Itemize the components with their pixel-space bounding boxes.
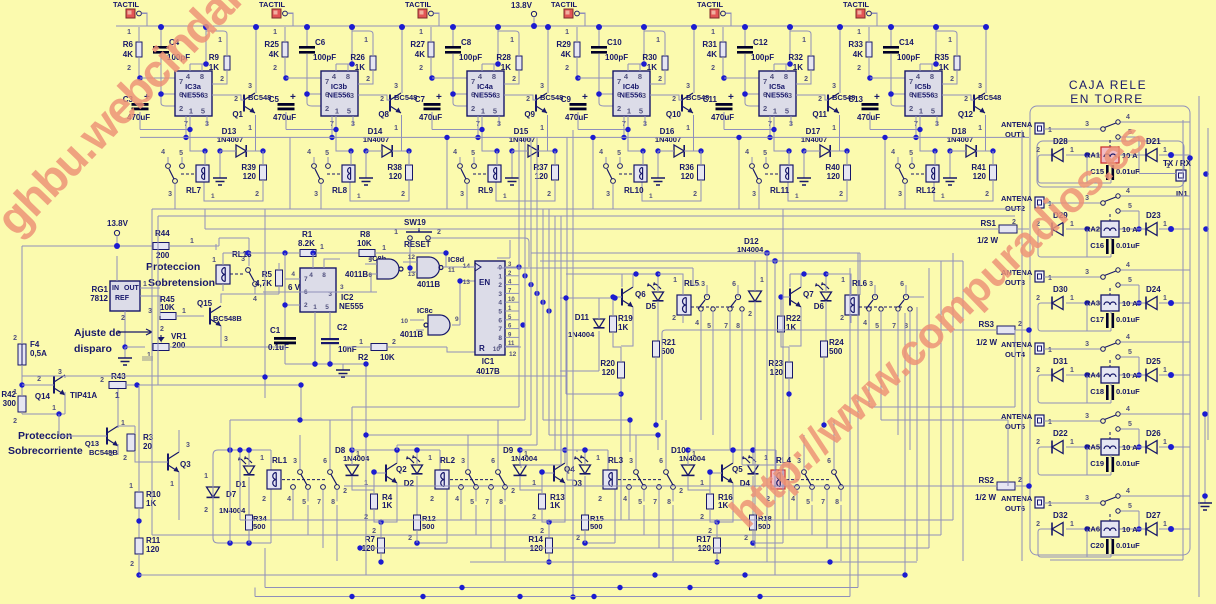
svg-text:2: 2 [1036,367,1040,374]
wire RA3 loop [1038,303,1111,331]
svg-text:NE556: NE556 [328,91,351,100]
junction [546,308,551,313]
svg-text:1: 1 [1070,439,1074,446]
svg-text:C13: C13 [848,95,863,104]
junction [475,135,480,140]
junction [562,447,568,453]
svg-text:8: 8 [346,72,350,81]
power terminal 13.8V regulator [22,219,153,246]
svg-text:1: 1 [170,481,174,488]
junction [767,135,772,140]
relay contact RA3 [1085,262,1190,303]
pushbutton TACTIL ch5 [697,0,731,26]
svg-text:1K: 1K [501,63,511,72]
pin labels R31 [711,29,715,72]
svg-text:RA3: RA3 [1085,299,1100,308]
svg-text:3: 3 [1085,121,1089,128]
svg-text:3: 3 [293,458,297,465]
svg-text:5: 5 [617,150,621,157]
svg-text:4: 4 [1126,406,1130,413]
svg-text:4: 4 [745,149,749,156]
svg-text:1: 1 [204,473,208,480]
svg-text:3: 3 [224,336,228,343]
junction [933,24,939,30]
svg-text:NE556: NE556 [620,91,643,100]
junction [1084,152,1089,157]
relay contact RL3 [618,420,675,507]
svg-text:2: 2 [498,282,502,289]
transistor Q9 BC548 [504,27,563,151]
diode D25 [1146,357,1167,382]
svg-text:470uF: 470uF [565,113,588,122]
relay RL10 [624,151,653,200]
junction [1136,226,1141,231]
junction [509,148,514,153]
junction [19,382,24,387]
svg-text:8: 8 [200,72,204,81]
svg-text:1: 1 [1163,439,1167,446]
junction [640,148,645,153]
pin labels R6 [127,29,131,72]
relay RL3 [596,455,624,503]
junction [610,294,615,299]
wire C18 cap drop [1086,375,1088,403]
svg-text:2: 2 [179,104,183,113]
junction [1136,372,1141,377]
svg-text:1: 1 [498,273,502,280]
svg-text:+: + [874,92,880,103]
timer IC3a NE556 [175,71,212,128]
relay RL8 [332,151,361,200]
svg-text:5: 5 [931,107,935,116]
relay contact RL11 [745,149,780,209]
svg-text:2: 2 [130,561,134,568]
svg-text:5: 5 [498,309,502,316]
svg-text:NE556: NE556 [474,91,497,100]
svg-text:NE556: NE556 [766,91,789,100]
svg-text:D7: D7 [226,490,237,499]
junction [633,271,638,276]
svg-text:6: 6 [617,90,621,99]
junction [947,148,952,153]
svg-text:1: 1 [13,389,17,396]
junction [304,24,310,30]
svg-text:ANTENA: ANTENA [1001,194,1033,203]
svg-text:C12: C12 [753,38,768,47]
svg-text:D28: D28 [1053,137,1068,146]
relay contact RL4 [786,420,843,507]
watermark left [0,0,280,245]
timer IC2 NE555 [278,253,377,337]
svg-text:3: 3 [186,442,190,449]
junction [750,540,756,546]
junction [517,594,522,599]
resistor R34 500 [246,514,268,543]
transistor Q7 [783,274,814,346]
svg-text:6: 6 [763,90,767,99]
wire IC1 bottom pins [140,116,207,151]
junction [329,135,334,140]
junction [420,594,425,599]
svg-text:500: 500 [590,522,603,531]
junction [1202,493,1208,499]
svg-text:Q13: Q13 [85,439,99,448]
wire RA1 row [1066,154,1190,156]
svg-text:TACTIL: TACTIL [697,0,724,9]
svg-text:Q2: Q2 [396,465,407,474]
resistor R24 500 [790,274,844,425]
resistor R15 500 [576,514,604,543]
svg-text:1: 1 [313,304,317,311]
resistor R45 10K [140,295,204,320]
resistor R17 120 [696,522,720,562]
svg-text:5: 5 [763,150,767,157]
pin labels R30 [656,37,662,83]
wire IC1 output 3 [498,288,519,298]
svg-text:TACTIL: TACTIL [259,0,286,9]
resistor R38 120 [350,151,413,201]
wire IC2 bottom pins [286,116,353,151]
svg-text:4: 4 [453,149,457,156]
svg-text:1: 1 [1048,347,1052,354]
junction [882,135,887,140]
svg-text:1: 1 [524,451,528,458]
svg-text:D30: D30 [1053,285,1068,294]
svg-text:2: 2 [123,455,127,462]
svg-text:R35: R35 [934,53,949,62]
resistor R18 500 [744,514,772,543]
resistor R21 500 [622,274,676,425]
svg-text:10: 10 [508,297,515,303]
wire right bus a [1198,96,1200,597]
junction [237,447,242,452]
svg-text:ANTENA: ANTENA [1001,120,1033,129]
svg-text:1: 1 [481,107,485,116]
resistor R2 10K [344,339,475,362]
svg-text:7: 7 [498,326,502,333]
junction [1168,444,1174,450]
text 6 Vol [288,283,307,292]
junction [450,91,456,97]
svg-text:5: 5 [179,150,183,157]
svg-text:5: 5 [347,107,351,116]
junction [612,295,617,300]
junction [495,61,501,67]
junction [778,294,783,299]
resistor R20 120 [600,347,624,520]
wire pin7 ch2 [286,77,321,79]
svg-text:4: 4 [291,271,295,278]
wire top supply bus [116,25,986,27]
svg-text:R14: R14 [528,535,543,544]
relay coil RA4 10A [1085,367,1138,383]
capacitor C6 100pF [299,27,336,106]
svg-text:R8: R8 [360,230,371,239]
svg-text:13: 13 [463,279,471,286]
svg-text:20: 20 [143,442,152,451]
svg-text:4K: 4K [707,50,717,59]
svg-text:1: 1 [419,29,423,36]
counter IC1 4017B [443,261,505,376]
wire RA4 loop [1038,375,1111,403]
svg-text:1N4004: 1N4004 [568,330,595,339]
junction [730,447,736,453]
wire pins48 ch6 [920,27,936,71]
junction [349,61,355,67]
svg-text:5: 5 [1128,349,1132,356]
wire RA6 loop [1038,529,1111,557]
svg-text:BC548B: BC548B [213,314,242,323]
svg-text:4: 4 [307,149,311,156]
svg-text:4: 4 [309,272,313,279]
svg-text:100pF: 100pF [459,53,482,62]
junction [298,382,303,387]
svg-text:500: 500 [829,347,843,356]
junction [528,282,533,287]
svg-text:10 A: 10 A [1122,225,1138,234]
svg-text:6: 6 [471,90,475,99]
svg-text:1K: 1K [355,63,365,72]
text ANTENA OUT2 [1001,194,1033,213]
junction [652,572,657,577]
relay RL1 [260,455,288,503]
svg-text:3: 3 [540,83,544,90]
svg-text:Q1: Q1 [232,110,243,119]
svg-text:12: 12 [408,254,416,261]
svg-text:4: 4 [455,496,459,503]
junction [414,540,420,546]
svg-text:C20: C20 [1090,541,1104,550]
transistor Q10 BC548 [650,27,709,151]
svg-text:1N4007: 1N4007 [217,135,243,144]
svg-text:3: 3 [934,91,938,100]
junction [327,361,332,366]
svg-text:6: 6 [491,458,495,465]
junction [563,295,568,300]
svg-text:1: 1 [1070,295,1074,302]
junction [1187,155,1193,161]
junction [406,148,411,153]
ground ch5 [797,151,811,185]
svg-text:7: 7 [763,77,767,86]
wire out route 9 [567,137,575,480]
junction [378,519,384,525]
junction [1168,526,1174,532]
svg-text:3: 3 [869,281,873,288]
relay coil RA3 10A [1085,295,1138,311]
wire mid bundle verticals [755,209,858,597]
svg-text:1: 1 [832,125,836,132]
junction [357,545,362,550]
junction [227,447,233,453]
fuse F4 0,5A [13,246,47,385]
diode D7 1N4004 [204,473,246,515]
svg-text:7: 7 [317,499,321,506]
svg-text:F4: F4 [30,340,40,349]
svg-text:D23: D23 [1146,211,1161,220]
wire bottom h520 [240,450,953,520]
relay coil RA5 10A [1085,439,1138,455]
resistor R23 120 [768,347,792,520]
svg-text:2: 2 [408,535,412,542]
transistor Q1 BC548 [212,27,271,151]
svg-text:10K: 10K [160,303,175,312]
svg-text:1: 1 [773,107,777,116]
diode D15 1N4007 [509,127,555,157]
wire rl3 contact drops [629,505,673,561]
junction [827,559,832,564]
svg-text:8: 8 [638,72,642,81]
svg-text:5: 5 [368,257,372,264]
pin labels R27 [419,29,423,72]
svg-text:1N4007: 1N4007 [363,135,389,144]
svg-text:2: 2 [950,76,954,83]
svg-text:5: 5 [639,107,643,116]
svg-text:10 A: 10 A [1122,371,1138,380]
diode D9 1N4004 [503,446,542,495]
capacitor C20 0.01uF [1090,537,1140,557]
diode D16 1N4007 [655,127,701,157]
svg-text:R26: R26 [350,53,365,62]
svg-text:4: 4 [623,496,627,503]
svg-text:1K: 1K [618,323,628,332]
svg-text:10 A: 10 A [1122,299,1138,308]
nand gate IC8c 4011B [400,281,475,339]
wire bus y209 [152,209,1022,376]
svg-text:D11: D11 [575,313,590,322]
svg-text:6: 6 [368,272,372,279]
svg-text:Q5: Q5 [732,465,743,474]
svg-text:IN1: IN1 [1176,189,1188,198]
svg-text:4: 4 [1126,334,1130,341]
svg-text:R38: R38 [387,163,402,172]
svg-text:2: 2 [1018,321,1022,328]
svg-text:1: 1 [320,244,324,251]
svg-text:6: 6 [179,90,183,99]
timer IC3b NE556 [321,71,358,128]
capacitor C10 100pF [591,27,628,106]
svg-text:3: 3 [978,83,982,90]
svg-text:R6: R6 [123,40,134,49]
svg-text:1/2 W: 1/2 W [976,338,997,347]
svg-text:4017B: 4017B [476,367,500,376]
svg-text:R11: R11 [146,536,161,545]
junction [1203,226,1209,232]
resistor R26 1K [350,31,376,84]
svg-text:200: 200 [172,341,186,350]
relay contact RL12 [891,149,926,209]
wire rl2 contact drops [461,505,505,561]
resistor R33 4K [848,27,872,78]
diode D27 [1146,511,1167,536]
svg-text:R41: R41 [971,163,986,172]
svg-text:500: 500 [253,522,266,531]
junction [282,302,287,307]
svg-text:1: 1 [127,29,131,36]
junction [495,24,501,30]
junction [1168,226,1174,232]
svg-text:R27: R27 [410,40,425,49]
svg-text:NE556: NE556 [912,91,935,100]
svg-text:1: 1 [428,455,432,462]
svg-text:C8: C8 [461,38,472,47]
svg-text:1: 1 [1070,147,1074,154]
svg-text:7: 7 [304,276,308,283]
diode D11 1N4004 [560,298,605,371]
junction [990,148,995,153]
svg-text:R36: R36 [679,163,694,172]
svg-text:8: 8 [331,499,335,506]
svg-text:2: 2 [576,535,580,542]
svg-text:12: 12 [509,351,517,358]
pin labels R25 [273,29,277,72]
svg-text:3: 3 [629,458,633,465]
junction [933,61,939,67]
junction [516,264,521,269]
svg-text:5: 5 [1128,503,1132,510]
wire IC5 bottom pins [724,116,791,151]
svg-text:Q15: Q15 [197,299,213,308]
svg-text:RL12: RL12 [916,186,936,195]
svg-text:REF: REF [115,295,130,302]
resistor R12 500 [408,514,436,543]
svg-text:Q9: Q9 [524,110,535,119]
svg-text:1: 1 [540,125,544,132]
svg-text:2: 2 [234,96,238,103]
svg-text:4: 4 [253,296,257,303]
svg-text:9: 9 [498,344,502,351]
svg-text:2: 2 [401,191,405,198]
nand gate IC8d 4011B [403,254,475,289]
svg-text:2: 2 [13,418,17,425]
svg-text:RESET: RESET [404,240,431,249]
junction [625,127,630,132]
wire bottom bus y597 [255,588,850,597]
svg-text:C10: C10 [607,38,622,47]
wire RL6 input [904,296,924,298]
junction [333,127,338,132]
text CAJA RELE EN TORRE [1069,78,1147,106]
svg-text:2: 2 [325,104,329,113]
svg-text:D5: D5 [646,302,657,311]
svg-text:D25: D25 [1146,357,1161,366]
junction [1168,372,1174,378]
svg-text:4: 4 [599,149,603,156]
svg-text:1: 1 [1163,295,1167,302]
transistor Q12 BC548 [942,27,1001,151]
diode D22 [1036,429,1074,454]
svg-text:5: 5 [785,107,789,116]
capacitor C13 470uF [848,92,880,130]
junction [913,135,918,140]
junction [837,24,843,30]
svg-text:1: 1 [795,193,799,200]
svg-text:RA4: RA4 [1085,371,1101,380]
svg-text:4: 4 [287,496,291,503]
diode D17 1N4007 [801,127,847,157]
transistor Q13 BC548B [59,389,125,458]
svg-text:7: 7 [485,499,489,506]
wire mid drop b [289,137,291,209]
svg-text:C7: C7 [415,95,426,104]
wire out route 1 [352,137,519,450]
svg-text:R9: R9 [209,53,220,62]
ground ch6 [943,151,957,185]
svg-text:1: 1 [760,277,764,284]
svg-text:D22: D22 [1053,429,1068,438]
svg-text:1: 1 [1070,367,1074,374]
capacitor C9 470uF [561,92,588,130]
